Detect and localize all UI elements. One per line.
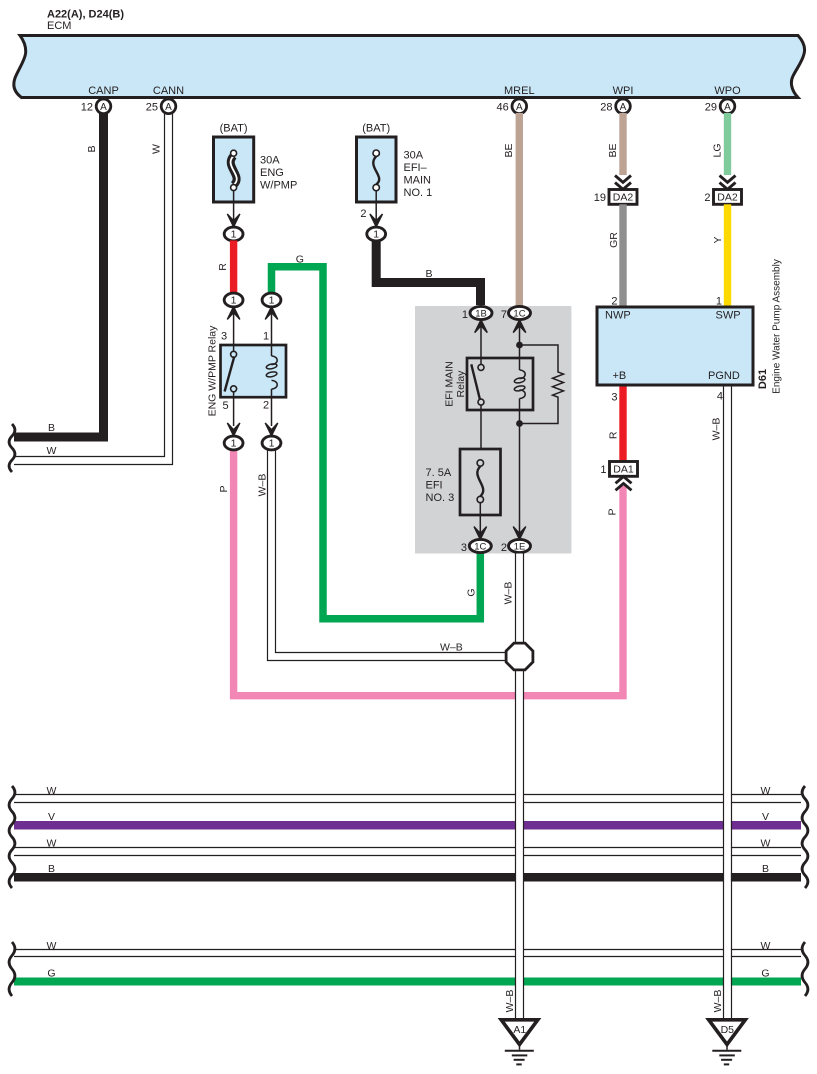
junction block shading (gray box) [415,306,571,554]
svg-text:1C: 1C [513,309,525,320]
svg-text:1C: 1C [474,542,486,553]
connector 1C pin 7 [501,306,531,321]
svg-text:A: A [620,102,627,113]
wire P from relay pin 5 to DA1 [218,449,623,696]
svg-text:25: 25 [146,101,158,113]
svg-text:BE: BE [607,143,619,157]
continuation squiggle for B and W wires [9,424,15,472]
svg-text:W: W [47,838,57,850]
svg-text:D5: D5 [721,1024,735,1036]
wire Y from DA2 to SWP pin 1 [712,204,731,307]
arrow into connector below fusible link [227,214,240,227]
lead from fusible link to connector [233,191,235,221]
svg-text:CANP: CANP [88,85,119,97]
lead from 1C through coil branch [519,326,521,534]
arrow up into 1C [513,320,526,333]
svg-text:W–B: W–B [712,990,724,1013]
chevrons into DA2 left [615,176,631,190]
svg-text:W–B: W–B [440,642,463,654]
svg-text:ECM: ECM [47,20,71,32]
connector 1 above relay pin 1 [262,293,281,307]
svg-text:W: W [761,940,771,952]
fusible link 30A ENG W/PMP [214,123,298,203]
svg-text:WPO: WPO [714,85,741,97]
connector 1 below fuse [367,227,386,241]
arrow up into connector at relay pin 3 [227,307,240,320]
svg-text:ENG W/PMP Relay: ENG W/PMP Relay [207,325,219,417]
svg-text:MREL: MREL [504,85,535,97]
svg-text:R: R [607,431,619,439]
lead pin 2 from ENG W/PMP relay [263,397,272,426]
terminal 12 A at CANP [81,99,111,114]
EFI MAIN relay coil [514,358,526,410]
fuse 7.5A EFI NO.3 [426,449,501,515]
svg-text:1: 1 [263,331,269,343]
svg-text:29: 29 [705,101,717,113]
svg-text:DA2: DA2 [613,192,634,204]
svg-text:A: A [165,102,172,113]
wire W-B from PGND to ground D5 [712,387,731,1021]
svg-text:(BAT): (BAT) [220,123,248,135]
wire LG from WPO to DA2 [711,113,731,175]
svg-text:2: 2 [501,542,507,554]
terminal 25 A at CANN [146,99,176,114]
arrow into connector below fuse [370,214,383,227]
svg-text:GR: GR [608,232,620,248]
bus wire G [14,968,801,986]
svg-text:B: B [48,422,55,434]
svg-text:B: B [762,863,769,875]
connector 1 below relay pin 2 [262,436,281,450]
arrow into 1E bottom [513,527,526,540]
junction node below relay coil [516,420,523,427]
terminal 28 A at WPI [600,99,630,114]
svg-text:2: 2 [263,400,269,412]
wire W-B from junction to ground A1 [504,668,524,1020]
svg-text:Relay: Relay [455,370,467,398]
svg-text:46: 46 [497,101,509,113]
svg-text:+B: +B [613,370,627,382]
svg-text:CANN: CANN [153,85,184,97]
svg-text:B: B [48,863,55,875]
lead pin 5 from ENG W/PMP relay [222,397,233,426]
svg-text:A: A [100,102,107,113]
wire W from CANN pin 25 [14,113,173,465]
junction connector DA2 pin 19 [594,190,637,205]
ECM pin label CANN [153,85,184,97]
arrow up into connector at relay pin 1 [265,307,278,320]
junction node octagon [506,643,533,670]
continuation squiggle buses right group1 [802,786,808,888]
wire R from +B pin 3 to DA1 [607,387,626,462]
arrow into connector below relay pin 5 [227,423,240,436]
lead from 1B to EFI MAIN relay switch [480,326,482,359]
ground D5 [709,1020,746,1065]
svg-text:7. 5A: 7. 5A [426,467,452,479]
junction connector DA2 pin 2 [704,190,741,205]
ECM block A22(A) D24(B) [14,9,805,98]
svg-text:B: B [425,268,432,280]
wire W-B from PGND pin 4 [711,391,723,441]
svg-text:B: B [86,145,98,152]
relay ENG W/PMP [207,325,287,417]
svg-text:LG: LG [711,143,723,157]
arrow up into 1B [475,320,488,333]
svg-text:W: W [47,785,57,797]
junction connector DA1 pin 1 [600,462,637,477]
junction node above relay coil [516,342,523,349]
wire B from fuse to EFI MAIN relay pin 1 [376,241,480,306]
lead pin 1 into ENG W/PMP relay [263,312,272,345]
connector 1E pin 2 [501,539,531,553]
svg-text:28: 28 [600,101,612,113]
svg-text:2: 2 [704,192,710,204]
connector 1 above relay pin 3 [224,293,243,307]
connector 1 below relay pin 5 [224,436,243,450]
svg-text:Engine Water Pump Assembly: Engine Water Pump Assembly [771,259,782,394]
connector 1 below fusible link [224,227,243,241]
svg-text:3: 3 [611,392,617,404]
lead from fuse to connector, pin 2 [360,191,376,221]
svg-text:W/PMP: W/PMP [260,180,297,192]
svg-text:G: G [761,968,769,980]
svg-text:(BAT): (BAT) [362,123,390,135]
connector 1C pin 3 [461,539,491,553]
svg-text:1E: 1E [514,542,526,553]
ENG W/PMP relay coil [266,345,278,397]
svg-text:12: 12 [81,101,93,113]
ECM pin label CANP [88,85,119,97]
svg-text:NWP: NWP [605,310,631,322]
svg-text:PGND: PGND [708,370,740,382]
svg-text:G: G [466,588,478,596]
bus wire B [14,863,801,882]
svg-text:R: R [217,263,229,271]
svg-text:V: V [48,811,55,823]
svg-text:A: A [516,102,523,113]
bus wire W group2 [14,940,801,957]
svg-text:1: 1 [462,309,468,321]
relay EFI MAIN [444,358,534,410]
svg-text:1B: 1B [475,309,487,320]
svg-text:ENG: ENG [260,167,284,179]
arrow into 1C bottom [474,527,487,540]
svg-text:Y: Y [712,236,724,243]
ECM pin label MREL [504,85,535,97]
wire BE from WPI to DA2 [607,113,627,175]
connector 1B pin 1 [462,306,492,321]
svg-text:W: W [761,838,771,850]
svg-text:EFI MAIN: EFI MAIN [444,361,456,407]
svg-text:W–B: W–B [503,582,515,605]
svg-text:5: 5 [222,400,228,412]
continuation squiggle buses right group2 [802,942,808,996]
wire W-B from 1E to junction [503,553,524,645]
svg-text:MAIN: MAIN [404,175,432,187]
svg-text:2: 2 [360,208,366,220]
svg-text:P: P [607,508,619,515]
svg-text:W–B: W–B [257,474,269,497]
ECM pin label WPO [714,85,741,97]
lead pin 3 into ENG W/PMP relay [221,312,234,345]
svg-text:BE: BE [503,143,515,157]
svg-text:4: 4 [717,391,723,403]
svg-text:DA1: DA1 [613,464,634,476]
svg-text:EFI: EFI [426,480,443,492]
svg-text:30A: 30A [404,150,424,162]
svg-text:P: P [218,485,230,492]
svg-text:W–B: W–B [711,418,723,441]
svg-text:W–B: W–B [504,990,516,1013]
arrow into connector below relay pin 2 [265,423,278,436]
svg-text:NO. 3: NO. 3 [426,492,455,504]
svg-text:19: 19 [594,192,606,204]
svg-text:A22(A), D24(B): A22(A), D24(B) [47,9,124,21]
svg-text:W: W [47,940,57,952]
svg-text:30A: 30A [260,155,280,167]
svg-text:V: V [762,811,769,823]
continuation squiggle buses left group2 [9,942,15,996]
svg-text:D61: D61 [757,369,769,389]
svg-text:3: 3 [461,542,467,554]
svg-text:W: W [761,785,771,797]
svg-text:1: 1 [600,464,606,476]
ground A1 [501,1020,538,1065]
svg-text:SWP: SWP [716,310,741,322]
wire W-B from relay pin 2 to junction [257,449,506,661]
Engine Water Pump Assembly D61 [597,259,782,394]
resistor parallel to coil [520,345,564,424]
ENG W/PMP relay switch contacts [225,345,237,397]
svg-text:A1: A1 [513,1024,526,1036]
bus wire W group1 line2 [14,838,801,856]
wire G from relay coil pin 1 to fuse EFI NO.3 connector [272,254,481,619]
svg-text:WPI: WPI [613,85,634,97]
wire GR from DA2 to NWP pin 2 [608,204,627,307]
svg-text:A: A [724,102,731,113]
bus wire W group1 line1 [14,785,801,803]
terminal 29 A at WPO [705,99,735,114]
fuse 30A EFI-MAIN NO. 1 [357,123,433,203]
ECM pin label WPI [613,85,634,97]
chevrons into DA1 [616,477,632,491]
svg-text:W: W [47,445,57,457]
svg-text:W: W [151,144,163,154]
terminal 46 A at MREL [497,99,527,114]
svg-text:3: 3 [221,331,227,343]
bus wire V [14,811,801,830]
EFI MAIN relay switch contacts [471,358,484,449]
svg-text:G: G [47,968,55,980]
svg-text:G: G [296,254,304,266]
chevrons into DA2 right [720,176,736,190]
wire R from fusible link to relay pin 3 [217,241,237,293]
continuation squiggle buses left group1 [9,786,15,888]
svg-text:7: 7 [501,309,507,321]
svg-text:DA2: DA2 [717,192,738,204]
wire BE from MREL to 1C [503,113,523,307]
svg-text:NO. 1: NO. 1 [404,187,433,199]
lead from fuse EFI NO.3 to 1C [479,503,481,534]
svg-text:EFI–: EFI– [404,162,428,174]
wire B from CANP pin 12 [14,113,104,437]
